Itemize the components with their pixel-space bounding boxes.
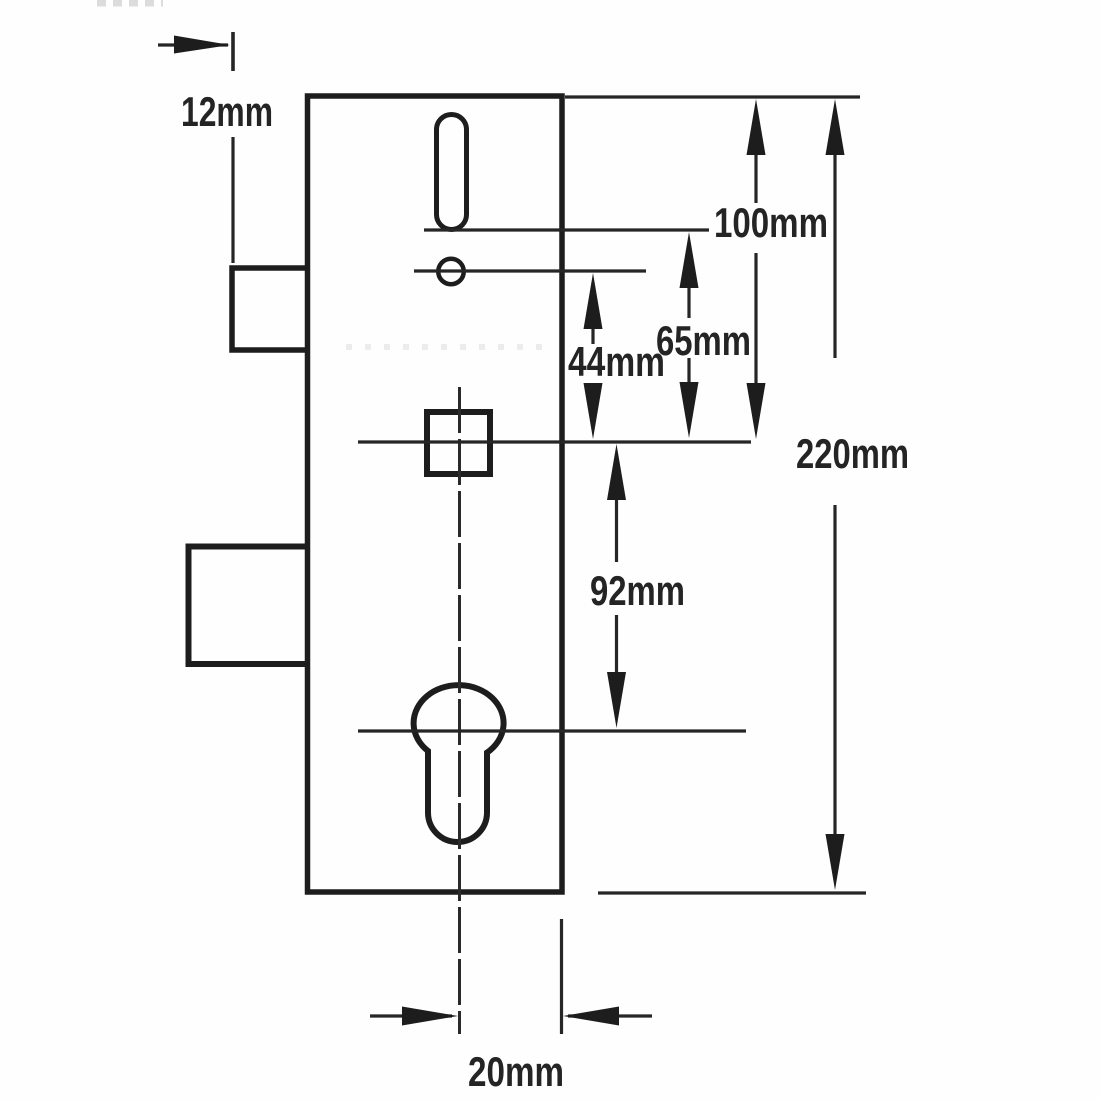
faint dotted construction line (346, 344, 545, 350)
reference line under oval slot (424, 228, 709, 231)
right extension line (20mm) (560, 919, 563, 1034)
svg-text:92mm: 92mm (590, 567, 685, 614)
top reference line (565, 95, 860, 98)
100mm dimension (754, 150, 757, 386)
vertical centre line (dashed) (458, 387, 461, 1034)
44mm dimension (591, 326, 594, 344)
20mm dimension arrows (370, 1014, 652, 1017)
svg-text:100mm: 100mm (714, 199, 828, 246)
bottom right reference line (598, 891, 866, 894)
reference line through circle (414, 269, 646, 272)
92mm dimension (615, 498, 618, 675)
svg-text:20mm: 20mm (468, 1048, 564, 1095)
svg-text:12mm: 12mm (181, 88, 273, 135)
latch bolt (upper) (232, 268, 308, 350)
svg-text:220mm: 220mm (796, 430, 909, 477)
220mm dimension (833, 151, 836, 839)
faint top scan marks (97, 0, 163, 7)
65mm dimension (687, 284, 690, 386)
12mm arrow (158, 32, 233, 71)
reference line through cylinder (358, 729, 746, 732)
deadbolt (lower) (189, 547, 308, 665)
svg-text:65mm: 65mm (656, 317, 751, 364)
12mm extension line (231, 137, 234, 263)
reference line through spindle (358, 440, 751, 443)
small fixing hole (circle) (438, 259, 464, 285)
svg-text:44mm: 44mm (568, 338, 665, 385)
euro cylinder hole (414, 685, 504, 842)
oval fixing slot (437, 115, 467, 230)
lock case body (308, 96, 563, 892)
square spindle hole (427, 412, 490, 474)
